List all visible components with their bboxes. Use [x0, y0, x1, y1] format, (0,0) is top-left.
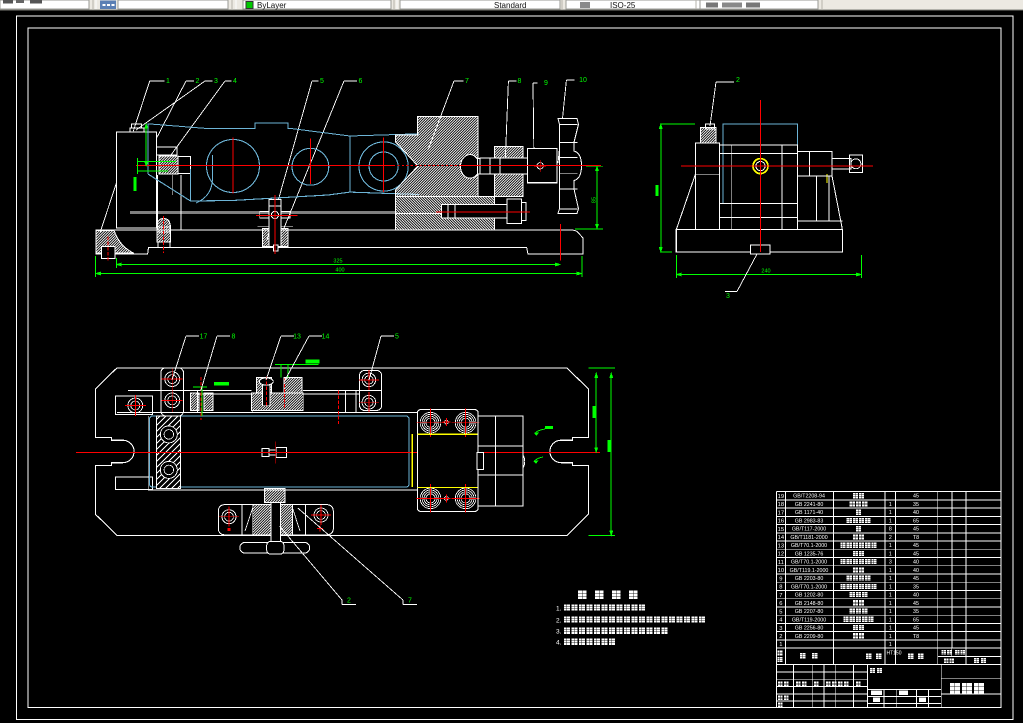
svg-text:17: 17 — [778, 510, 784, 516]
svg-text:7: 7 — [779, 593, 782, 599]
svg-text:GB 2203-80: GB 2203-80 — [795, 576, 824, 582]
svg-text:1: 1 — [889, 568, 892, 574]
svg-text:GB/T119.1-2000: GB/T119.1-2000 — [790, 568, 829, 574]
svg-text:35: 35 — [913, 584, 919, 590]
svg-text:1: 1 — [889, 642, 892, 648]
svg-text:85: 85 — [592, 197, 598, 203]
svg-text:15: 15 — [778, 527, 784, 533]
svg-text:3: 3 — [889, 560, 892, 566]
svg-text:GB/T119-2000: GB/T119-2000 — [792, 617, 826, 623]
svg-text:3.: 3. — [556, 629, 562, 636]
svg-text:1: 1 — [889, 502, 892, 508]
svg-text:35: 35 — [913, 609, 919, 615]
svg-text:GB 2148-80: GB 2148-80 — [795, 601, 824, 607]
svg-text:9: 9 — [544, 80, 548, 87]
svg-text:Standard: Standard — [494, 1, 526, 10]
svg-text:2: 2 — [889, 535, 892, 541]
svg-text:10: 10 — [579, 77, 587, 84]
svg-text:2.: 2. — [556, 618, 562, 625]
svg-text:GB/T70.1-2000: GB/T70.1-2000 — [791, 560, 827, 566]
svg-text:45: 45 — [913, 527, 919, 533]
svg-text:14: 14 — [322, 334, 330, 341]
svg-text:7: 7 — [408, 598, 412, 605]
svg-text:8: 8 — [779, 585, 782, 591]
svg-text:1: 1 — [889, 601, 892, 607]
svg-text:1: 1 — [889, 634, 892, 640]
svg-text:40: 40 — [913, 510, 919, 516]
svg-text:45: 45 — [913, 543, 919, 549]
svg-text:10: 10 — [778, 568, 784, 574]
svg-text:2: 2 — [347, 598, 351, 605]
svg-text:18: 18 — [778, 502, 784, 508]
svg-text:16: 16 — [778, 519, 784, 525]
svg-text:8: 8 — [889, 527, 892, 533]
svg-text:14: 14 — [778, 535, 785, 541]
svg-text:2: 2 — [196, 78, 200, 85]
svg-text:4: 4 — [233, 78, 237, 85]
svg-text:ISO-25: ISO-25 — [610, 1, 636, 10]
svg-text:5: 5 — [779, 609, 782, 615]
svg-text:40: 40 — [913, 560, 919, 566]
svg-text:12: 12 — [778, 552, 784, 558]
svg-text:17: 17 — [200, 334, 208, 341]
svg-text:5: 5 — [320, 78, 324, 85]
svg-text:1: 1 — [889, 543, 892, 549]
svg-text:HT150: HT150 — [886, 651, 901, 657]
svg-text:6: 6 — [779, 601, 782, 607]
svg-text:40: 40 — [913, 593, 919, 599]
svg-text:GB/T70.1-2000: GB/T70.1-2000 — [791, 584, 827, 590]
svg-text:65: 65 — [913, 518, 919, 524]
svg-text:45: 45 — [913, 601, 919, 607]
svg-text:45: 45 — [913, 551, 919, 557]
svg-text:1: 1 — [889, 518, 892, 524]
svg-text:T8: T8 — [913, 535, 919, 541]
svg-text:11: 11 — [778, 560, 784, 566]
svg-text:1: 1 — [889, 609, 892, 615]
svg-text:40: 40 — [913, 568, 919, 574]
svg-text:45: 45 — [913, 576, 919, 582]
svg-text:2: 2 — [779, 634, 782, 640]
svg-text:45: 45 — [913, 626, 919, 632]
svg-text:1: 1 — [889, 617, 892, 623]
svg-text:19: 19 — [778, 494, 784, 500]
svg-text:GB/T70.1-2000: GB/T70.1-2000 — [791, 543, 827, 549]
svg-text:1: 1 — [889, 584, 892, 590]
svg-text:GB 2983-83: GB 2983-83 — [795, 518, 824, 524]
svg-text:5: 5 — [395, 334, 399, 341]
svg-text:1: 1 — [889, 576, 892, 582]
svg-text:GB/T1181-2000: GB/T1181-2000 — [790, 535, 827, 541]
svg-text:400: 400 — [335, 268, 344, 274]
svg-text:2: 2 — [736, 77, 740, 84]
svg-text:T8: T8 — [913, 634, 919, 640]
svg-text:13: 13 — [778, 543, 784, 549]
svg-text:65: 65 — [913, 617, 919, 623]
svg-text:1.: 1. — [556, 606, 562, 613]
svg-text:GB 2241-80: GB 2241-80 — [795, 502, 824, 508]
svg-text:4.: 4. — [556, 640, 562, 647]
svg-text:1: 1 — [889, 626, 892, 632]
svg-text:240: 240 — [761, 269, 770, 275]
svg-text:GB/T2208-94: GB/T2208-94 — [793, 494, 825, 500]
svg-text:3: 3 — [779, 626, 782, 632]
svg-text:13: 13 — [293, 334, 301, 341]
svg-text:7: 7 — [465, 78, 469, 85]
svg-text:1: 1 — [889, 551, 892, 557]
svg-text:GB 2207-80: GB 2207-80 — [795, 609, 824, 615]
svg-text:GB/T117-2000: GB/T117-2000 — [792, 527, 826, 533]
svg-text:GB 1235-76: GB 1235-76 — [795, 551, 824, 557]
svg-text:1: 1 — [166, 78, 170, 85]
svg-text:3: 3 — [214, 78, 218, 85]
svg-text:GB 1202-80: GB 1202-80 — [795, 593, 824, 599]
svg-text:1: 1 — [889, 593, 892, 599]
svg-text:1: 1 — [889, 510, 892, 516]
svg-text:GB 2209-80: GB 2209-80 — [795, 634, 824, 640]
svg-text:3: 3 — [726, 293, 730, 300]
svg-text:8: 8 — [232, 334, 236, 341]
svg-text:9: 9 — [779, 576, 782, 582]
svg-text:GB 1171-40: GB 1171-40 — [795, 510, 823, 516]
svg-text:8: 8 — [518, 78, 522, 85]
svg-text:6: 6 — [359, 78, 363, 85]
svg-text:325: 325 — [333, 259, 342, 265]
svg-text:GB 2256-80: GB 2256-80 — [795, 626, 824, 632]
svg-text:45: 45 — [913, 494, 919, 500]
svg-text:1: 1 — [779, 642, 782, 648]
svg-text:35: 35 — [913, 502, 919, 508]
svg-text:ByLayer: ByLayer — [257, 1, 287, 10]
